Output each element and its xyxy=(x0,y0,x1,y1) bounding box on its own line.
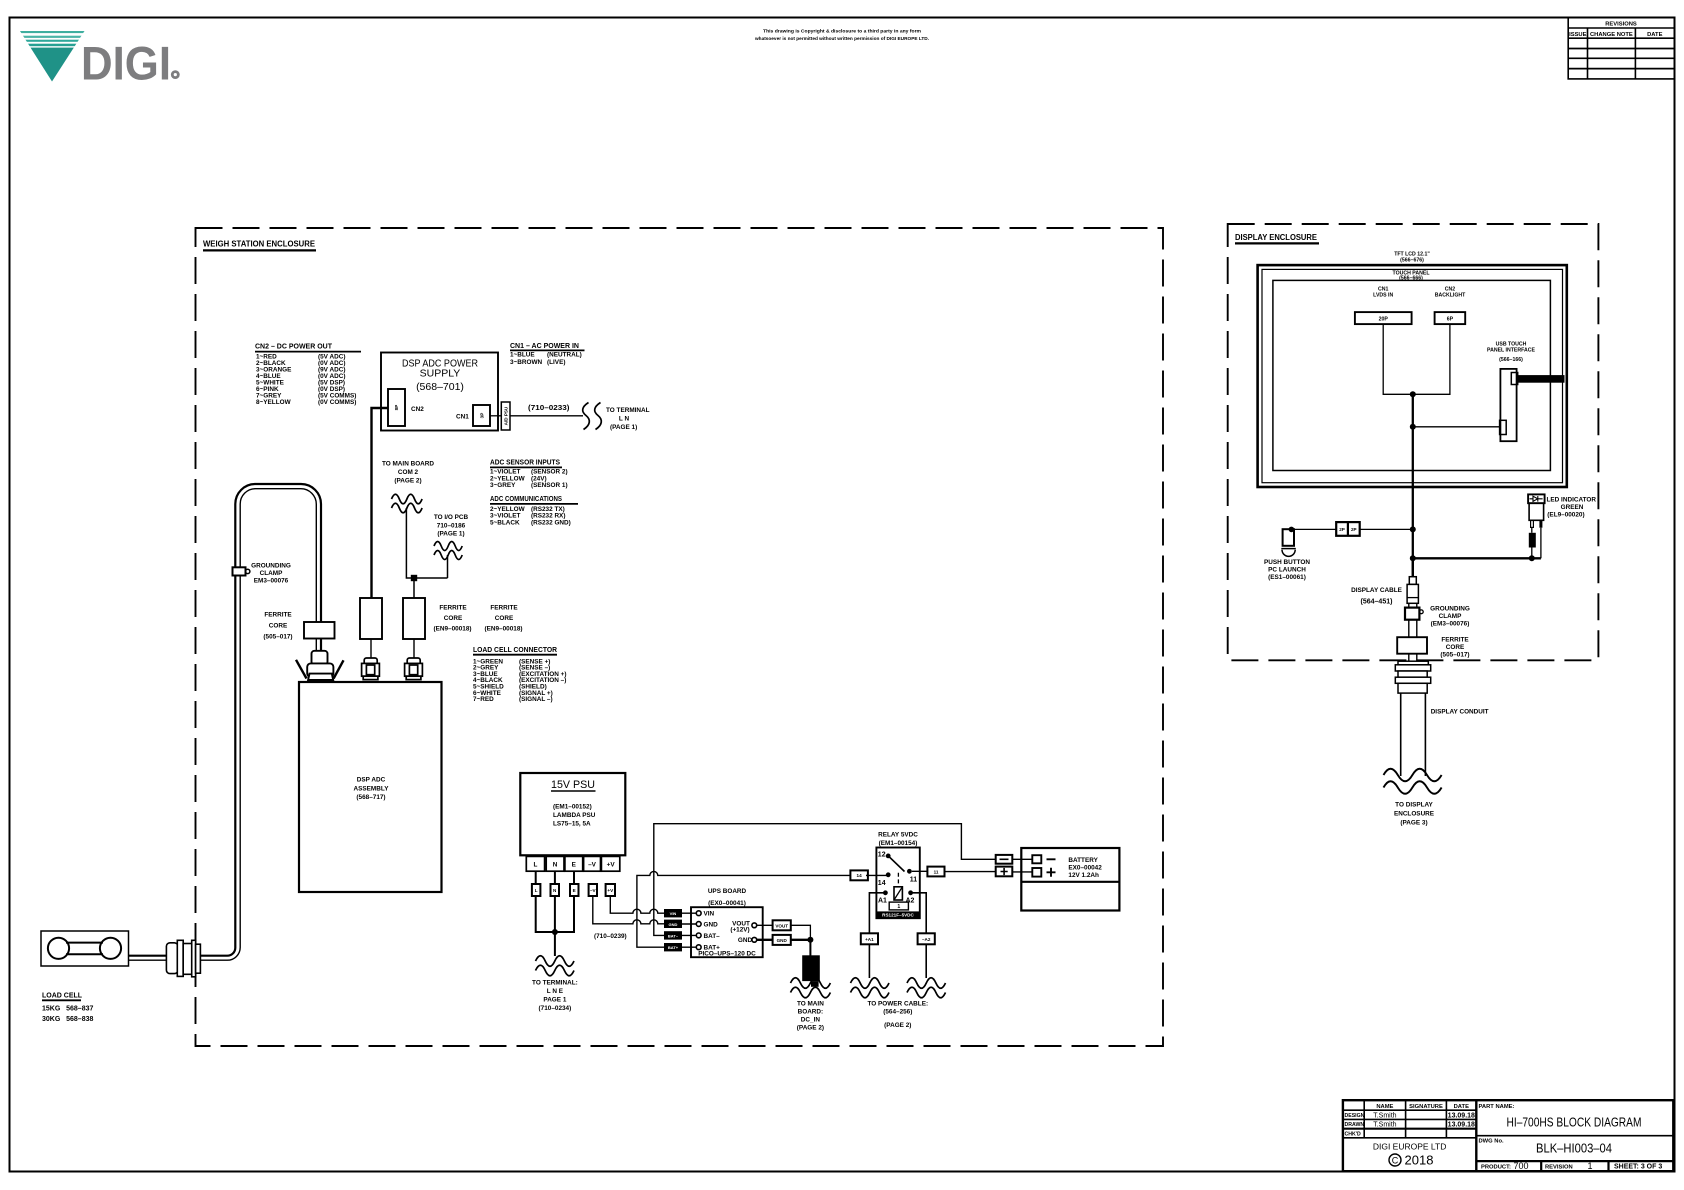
svg-text:3~BROWN: 3~BROWN xyxy=(510,359,543,366)
svg-text:(EN9–00018): (EN9–00018) xyxy=(484,626,522,633)
wire CN1 to terminal xyxy=(490,415,501,417)
ferrite core EN9-00018 left xyxy=(360,598,382,639)
svg-text:L N: L N xyxy=(619,416,630,423)
UPS input tags xyxy=(664,909,682,951)
svg-text:(710–0239): (710–0239) xyxy=(594,933,627,940)
LED indicator symbol xyxy=(1528,494,1545,503)
A2 wire down xyxy=(911,893,927,934)
svg-text:(0V COMMS): (0V COMMS) xyxy=(318,399,356,406)
GND tag xyxy=(773,935,791,945)
load cell dumbbell xyxy=(48,938,69,959)
svg-text:30KG 568–838: 30KG 568–838 xyxy=(42,1016,93,1023)
svg-text:This drawing is Copyright & di: This drawing is Copyright & disclosure t… xyxy=(763,29,921,35)
svg-text:HI–700HS BLOCK DIAGRAM: HI–700HS BLOCK DIAGRAM xyxy=(1507,1116,1642,1130)
CN1 CN2 labels xyxy=(1373,286,1466,298)
battery terminals xyxy=(1032,855,1041,863)
svg-text:DSP ADC: DSP ADC xyxy=(357,777,386,784)
svg-text:2P: 2P xyxy=(1339,527,1345,532)
svg-text:TO I/O PCB: TO I/O PCB xyxy=(434,514,469,521)
svg-text:+A1: +A1 xyxy=(865,937,874,942)
svg-text:E: E xyxy=(572,861,577,868)
wires below tags xyxy=(868,944,870,978)
svg-text:PART NAME:: PART NAME: xyxy=(1479,1104,1515,1110)
svg-text:VOUT: VOUT xyxy=(775,923,788,928)
stubs into UPS pins xyxy=(682,913,696,947)
wire into pin 14 xyxy=(866,874,888,876)
svg-text:(568–701): (568–701) xyxy=(416,381,464,393)
fuse blocks xyxy=(532,884,615,896)
svg-text:2P: 2P xyxy=(1351,527,1357,532)
svg-text:LVDS IN: LVDS IN xyxy=(1373,293,1393,299)
svg-text:BACKLIGHT: BACKLIGHT xyxy=(1435,293,1466,299)
grounding clamp xyxy=(1405,608,1419,620)
cable gland at enclosure wall xyxy=(166,940,200,977)
load cell cable outer line xyxy=(128,484,321,956)
svg-text:DIGI: DIGI xyxy=(81,37,171,90)
connector CN2 of PSU xyxy=(388,389,405,426)
svg-text:C: C xyxy=(1392,1155,1399,1165)
svg-text:BAT–: BAT– xyxy=(704,933,721,940)
svg-text:CN2: CN2 xyxy=(411,406,424,413)
svg-text:3~GREY: 3~GREY xyxy=(490,482,516,489)
svg-text:A/D PSU: A/D PSU xyxy=(504,406,509,425)
svg-text:13.09.18: 13.09.18 xyxy=(1448,1113,1475,1120)
svg-text:EX0–00042: EX0–00042 xyxy=(1068,865,1102,872)
svg-text:COM 2: COM 2 xyxy=(398,469,419,476)
break squiggles xyxy=(851,978,889,989)
touch panel inner box xyxy=(1273,280,1551,470)
svg-text:SUPPLY: SUPPLY xyxy=(420,367,461,379)
svg-text:7~RED: 7~RED xyxy=(473,696,494,703)
wire to USB interface xyxy=(1413,426,1501,428)
svg-text:RELAY 5VDC: RELAY 5VDC xyxy=(878,832,918,839)
svg-text:20P: 20P xyxy=(1379,316,1389,322)
svg-text:LAMBDA PSU: LAMBDA PSU xyxy=(553,812,596,819)
svg-text:DATE: DATE xyxy=(1647,32,1662,38)
svg-text:VIN: VIN xyxy=(704,911,715,918)
svg-text:12: 12 xyxy=(878,852,886,859)
svg-text:EM3–00076: EM3–00076 xyxy=(254,578,289,585)
svg-text:CORE: CORE xyxy=(1446,644,1465,651)
svg-text:ADC SENSOR INPUTS: ADC SENSOR INPUTS xyxy=(490,460,560,467)
main display cable vertical xyxy=(1412,394,1414,577)
junction xyxy=(411,575,417,581)
PSU terminal blocks L N E -V +V xyxy=(526,856,620,871)
svg-text:CORE: CORE xyxy=(444,615,463,622)
svg-text:PUSH BUTTON: PUSH BUTTON xyxy=(1264,559,1310,566)
svg-text:(564–256): (564–256) xyxy=(883,1009,912,1016)
svg-text:GROUNDING: GROUNDING xyxy=(1430,605,1470,612)
pin 14 xyxy=(886,872,891,877)
wire tag 14 xyxy=(850,870,868,880)
svg-text:E: E xyxy=(573,888,576,893)
ferrite core xyxy=(1397,637,1427,654)
svg-text:DRAWN: DRAWN xyxy=(1345,1122,1365,1128)
svg-text:–A2: –A2 xyxy=(922,937,931,942)
coil xyxy=(894,887,902,900)
svg-text:11: 11 xyxy=(910,877,918,884)
svg-text:whatsoever is not permitted wi: whatsoever is not permitted without writ… xyxy=(754,36,929,42)
svg-text:VIN: VIN xyxy=(670,911,677,916)
load cell cable inner line xyxy=(128,489,316,961)
ferrite core EN9-00018 right xyxy=(403,598,425,639)
display conduit xyxy=(1401,693,1426,776)
+V wire to VIN with humps xyxy=(610,896,664,913)
svg-text:(RS232 GND): (RS232 GND) xyxy=(531,519,571,526)
svg-text:(LIVE): (LIVE) xyxy=(547,359,565,366)
junction to LED xyxy=(1410,555,1416,561)
svg-text:14: 14 xyxy=(878,880,886,887)
BAT- wire up over to battery minus xyxy=(654,824,996,936)
conduit fitting through wall xyxy=(1395,661,1430,693)
svg-text:CORE: CORE xyxy=(495,615,514,622)
svg-text:PC LAUNCH: PC LAUNCH xyxy=(1268,567,1306,574)
BAT+ wire up to relay 14 xyxy=(637,871,851,947)
svg-text:3P: 3P xyxy=(480,413,485,419)
A/D PSU connector on border xyxy=(501,402,510,430)
svg-text:(568–717): (568–717) xyxy=(356,794,385,801)
display enclosure dashed border xyxy=(1228,224,1599,660)
svg-text:CN2: CN2 xyxy=(1445,286,1455,292)
svg-text:(EL9–00020): (EL9–00020) xyxy=(1547,512,1584,519)
svg-text:TO MAIN: TO MAIN xyxy=(797,1000,824,1007)
wires tags to battery xyxy=(1012,859,1032,872)
svg-text:CN2 – DC POWER OUT: CN2 – DC POWER OUT xyxy=(255,344,333,351)
svg-text:BLK–HI003–04: BLK–HI003–04 xyxy=(1536,1142,1612,1156)
svg-text:+V: +V xyxy=(607,888,614,893)
svg-text:L: L xyxy=(535,888,538,893)
break squiggle xyxy=(536,956,574,967)
A1 A2 pins xyxy=(883,890,888,895)
svg-text:GND: GND xyxy=(777,938,788,943)
A1 wire down xyxy=(869,893,885,934)
relay part black bar xyxy=(877,911,920,917)
svg-text:1: 1 xyxy=(897,904,900,910)
svg-text:(505–017): (505–017) xyxy=(1440,651,1469,658)
to I/O PCB label xyxy=(434,514,469,538)
svg-text:DISPLAY CONDUIT: DISPLAY CONDUIT xyxy=(1431,709,1489,716)
pin 11 xyxy=(907,869,912,874)
svg-text:12V 1.2Ah: 12V 1.2Ah xyxy=(1068,872,1099,879)
svg-text:L N E: L N E xyxy=(547,988,564,995)
junction to push button xyxy=(1410,526,1416,532)
svg-text:ADC COMMUNICATIONS: ADC COMMUNICATIONS xyxy=(490,496,562,503)
svg-text:TFT LCD 12.1": TFT LCD 12.1" xyxy=(1394,251,1430,257)
svg-text:GND: GND xyxy=(704,922,719,929)
svg-text:(564–451): (564–451) xyxy=(1361,599,1393,606)
svg-text:CN1 – AC POWER IN: CN1 – AC POWER IN xyxy=(510,343,579,350)
svg-text:ASSEMBLY: ASSEMBLY xyxy=(354,785,390,792)
svg-text:(PAGE 1): (PAGE 1) xyxy=(437,531,464,538)
svg-text:GND: GND xyxy=(669,922,678,927)
battery text xyxy=(1068,857,1102,879)
svg-text:A2: A2 xyxy=(906,897,915,904)
svg-text:SHEET: 3 OF 3: SHEET: 3 OF 3 xyxy=(1614,1164,1662,1171)
break squiggle xyxy=(434,542,462,551)
svg-text:(SENSOR 1): (SENSOR 1) xyxy=(531,482,568,489)
svg-text:FERRITE: FERRITE xyxy=(1441,636,1469,643)
svg-text:710–0186: 710–0186 xyxy=(437,522,466,529)
svg-text:PANEL INTERFACE: PANEL INTERFACE xyxy=(1487,348,1535,354)
to terminal LNE label xyxy=(532,980,578,1013)
svg-text:(PAGE 1): (PAGE 1) xyxy=(610,424,637,431)
svg-text:DWG No.: DWG No. xyxy=(1479,1139,1505,1145)
svg-text:GREEN: GREEN xyxy=(1561,504,1584,511)
svg-text:(566–166): (566–166) xyxy=(1499,357,1523,363)
svg-text:11: 11 xyxy=(934,869,939,874)
svg-text:1~BLUE: 1~BLUE xyxy=(510,352,535,359)
cable break squiggle xyxy=(583,403,590,430)
ferrite core 505-017 xyxy=(304,622,335,639)
svg-text:(EX0–00041): (EX0–00041) xyxy=(708,900,746,907)
wire from com2 break xyxy=(406,508,447,578)
svg-text:SIGNATURE: SIGNATURE xyxy=(1409,1104,1443,1110)
title block xyxy=(1343,1100,1673,1171)
svg-text:LOAD CELL: LOAD CELL xyxy=(42,993,83,1000)
svg-text:PAGE 1: PAGE 1 xyxy=(543,997,566,1004)
svg-text:DISPLAY CABLE: DISPLAY CABLE xyxy=(1351,587,1403,594)
GND wiring thick xyxy=(757,939,811,941)
junction xyxy=(552,929,558,935)
svg-text:(EN9–00018): (EN9–00018) xyxy=(433,626,471,633)
svg-text:LS75–15, 5A: LS75–15, 5A xyxy=(553,820,591,827)
grounding clamp on cable xyxy=(233,567,246,575)
svg-text:(710–0234): (710–0234) xyxy=(539,1005,572,1012)
svg-text:FERRITE: FERRITE xyxy=(439,605,467,612)
svg-text:FERRITE: FERRITE xyxy=(264,612,292,619)
svg-text:1: 1 xyxy=(1587,1161,1592,1171)
svg-text:PICO–UPS–120 DC: PICO–UPS–120 DC xyxy=(698,951,756,958)
wire pin11 to plus xyxy=(912,870,996,872)
break squiggle xyxy=(791,978,831,989)
svg-text:GND: GND xyxy=(738,937,753,944)
svg-text:8P: 8P xyxy=(394,405,399,411)
svg-text:15KG 568–837: 15KG 568–837 xyxy=(42,1006,93,1013)
svg-text:DIGI EUROPE LTD: DIGI EUROPE LTD xyxy=(1373,1142,1447,1152)
svg-text:(EM1–00154): (EM1–00154) xyxy=(879,840,918,847)
wire tag -A2 xyxy=(918,933,935,944)
svg-text:GROUNDING: GROUNDING xyxy=(251,563,291,570)
svg-text:14: 14 xyxy=(857,873,863,878)
svg-text:CN1: CN1 xyxy=(1378,286,1388,292)
svg-text:(PAGE 2): (PAGE 2) xyxy=(797,1024,824,1031)
wire tag plus xyxy=(996,867,1013,877)
svg-text:CLAMP: CLAMP xyxy=(1439,613,1462,620)
svg-text:DATE: DATE xyxy=(1454,1104,1469,1110)
svg-text:(505–017): (505–017) xyxy=(263,634,292,641)
cable gland mid xyxy=(362,658,380,680)
to main board DC_IN label xyxy=(797,1000,824,1031)
svg-text:CHANGE NOTE: CHANGE NOTE xyxy=(1590,32,1633,38)
svg-text:(+12V): (+12V) xyxy=(730,927,749,934)
wire tag minus xyxy=(996,855,1013,864)
svg-text:2018: 2018 xyxy=(1405,1153,1434,1168)
svg-text:–V: –V xyxy=(590,888,597,893)
UPS board xyxy=(691,907,763,957)
break squiggle xyxy=(392,494,423,504)
relay id tab xyxy=(889,902,908,910)
TFT LCD outer box xyxy=(1258,265,1567,487)
svg-text:DESIGN: DESIGN xyxy=(1345,1113,1365,1119)
break squiggle xyxy=(1384,769,1442,782)
svg-text:L: L xyxy=(533,861,537,868)
svg-text:(ES1–00061): (ES1–00061) xyxy=(1268,574,1306,581)
cable gland right xyxy=(405,658,423,680)
svg-text:ENCLOSURE: ENCLOSURE xyxy=(1394,811,1435,818)
weigh station enclosure dashed border xyxy=(196,228,1164,1046)
load cell body xyxy=(41,931,129,966)
svg-text:BOARD:: BOARD: xyxy=(798,1008,824,1015)
svg-text:PRODUCT:: PRODUCT: xyxy=(1481,1164,1511,1170)
svg-text:CORE: CORE xyxy=(269,623,288,630)
wire tag +A1 xyxy=(861,933,878,944)
svg-text:REVISIONS: REVISIONS xyxy=(1605,22,1637,28)
svg-text:USB TOUCH: USB TOUCH xyxy=(1496,341,1527,347)
svg-text:TO DISPLAY: TO DISPLAY xyxy=(1395,802,1433,809)
svg-text:TO POWER CABLE:: TO POWER CABLE: xyxy=(868,1001,929,1008)
svg-text:TO TERMINAL:: TO TERMINAL: xyxy=(532,980,578,987)
svg-text:(EM1–00152): (EM1–00152) xyxy=(553,804,592,811)
15V PSU box xyxy=(520,773,625,855)
battery box xyxy=(1021,848,1119,911)
to terminal label xyxy=(606,407,650,431)
svg-text:(EM3–00076): (EM3–00076) xyxy=(1431,620,1470,627)
svg-text:LOAD CELL CONNECTOR: LOAD CELL CONNECTOR xyxy=(473,647,557,654)
connector 20P xyxy=(1355,312,1412,324)
load cell D-sub connector on assembly xyxy=(307,651,333,680)
USB touch panel interface label xyxy=(1487,341,1535,363)
-V wire to GND with humps xyxy=(593,896,664,924)
svg-text:CHK'D: CHK'D xyxy=(1345,1132,1361,1138)
svg-text:TO MAIN BOARD: TO MAIN BOARD xyxy=(382,461,434,468)
svg-text:UPS BOARD: UPS BOARD xyxy=(708,888,747,895)
wire tag 11 xyxy=(927,867,944,877)
svg-text:(566–676): (566–676) xyxy=(1400,258,1424,264)
svg-text:(PAGE 2): (PAGE 2) xyxy=(884,1022,911,1029)
revisions table xyxy=(1568,18,1674,79)
svg-text:N: N xyxy=(553,861,558,868)
svg-text:FERRITE: FERRITE xyxy=(490,605,518,612)
svg-text:15V PSU: 15V PSU xyxy=(551,779,595,791)
svg-text:TO TERMINAL: TO TERMINAL xyxy=(606,407,650,414)
svg-text:NAME: NAME xyxy=(1376,1104,1393,1110)
svg-text:8~YELLOW: 8~YELLOW xyxy=(256,399,292,406)
svg-text:A1: A1 xyxy=(878,897,887,904)
svg-text:ISSUE: ISSUE xyxy=(1569,32,1587,38)
svg-text:CLAMP: CLAMP xyxy=(260,570,283,577)
svg-text:(PAGE 3): (PAGE 3) xyxy=(1400,820,1427,827)
VOUT tag xyxy=(773,920,791,930)
USB touch panel interface board xyxy=(1500,369,1516,441)
svg-text:RS121F–5VDC: RS121F–5VDC xyxy=(882,912,914,917)
to power cable label xyxy=(868,1001,929,1030)
svg-text:6P: 6P xyxy=(1447,316,1454,322)
svg-text:BAT–: BAT– xyxy=(668,933,679,938)
DSP ADC assembly box xyxy=(299,682,442,892)
wires from ferrites to glands xyxy=(370,639,372,658)
relay box U-relay xyxy=(876,848,919,919)
DC_IN connector black xyxy=(809,940,811,956)
svg-text:CN1: CN1 xyxy=(456,414,469,421)
svg-text:13.09.18: 13.09.18 xyxy=(1448,1122,1475,1129)
svg-text:DC_IN: DC_IN xyxy=(801,1016,821,1023)
svg-text:(SIGNAL –): (SIGNAL –) xyxy=(519,696,553,703)
svg-text:5~BLACK: 5~BLACK xyxy=(490,519,520,526)
svg-text:BATTERY: BATTERY xyxy=(1068,857,1098,864)
wires to junction xyxy=(1383,324,1450,394)
svg-text:–V: –V xyxy=(588,861,597,868)
VOUT wiring xyxy=(757,925,811,940)
wire from I/O break xyxy=(447,555,449,578)
to main board com2 label xyxy=(382,461,434,485)
svg-text:DISPLAY ENCLOSURE: DISPLAY ENCLOSURE xyxy=(1235,233,1318,242)
svg-text:REVISION: REVISION xyxy=(1545,1164,1573,1170)
switch arm xyxy=(888,856,904,872)
display cable connector stack xyxy=(1412,558,1414,576)
wire CN2 to ferrite xyxy=(372,408,389,598)
coil link dashed xyxy=(897,873,899,886)
L N E wires to junction xyxy=(535,871,537,884)
svg-text:T.Smith: T.Smith xyxy=(1373,1122,1396,1129)
svg-text:T.Smith: T.Smith xyxy=(1373,1113,1396,1120)
to display enclosure label xyxy=(1394,802,1435,827)
svg-text:BAT+: BAT+ xyxy=(668,945,679,950)
svg-text:WEIGH STATION ENCLOSURE: WEIGH STATION ENCLOSURE xyxy=(203,240,316,249)
svg-text:+V: +V xyxy=(607,861,616,868)
connector 6P xyxy=(1435,312,1466,324)
DSP ADC power supply U-PSU xyxy=(381,353,498,431)
push button xyxy=(1289,527,1295,533)
svg-text:(NEUTRAL): (NEUTRAL) xyxy=(547,352,582,359)
svg-text:(710–0233): (710–0233) xyxy=(528,405,570,412)
svg-text:700: 700 xyxy=(1513,1161,1528,1171)
2P connector tags xyxy=(1336,522,1360,536)
svg-text:(PAGE 2): (PAGE 2) xyxy=(394,477,421,484)
svg-text:LED INDICATOR: LED INDICATOR xyxy=(1547,497,1597,504)
